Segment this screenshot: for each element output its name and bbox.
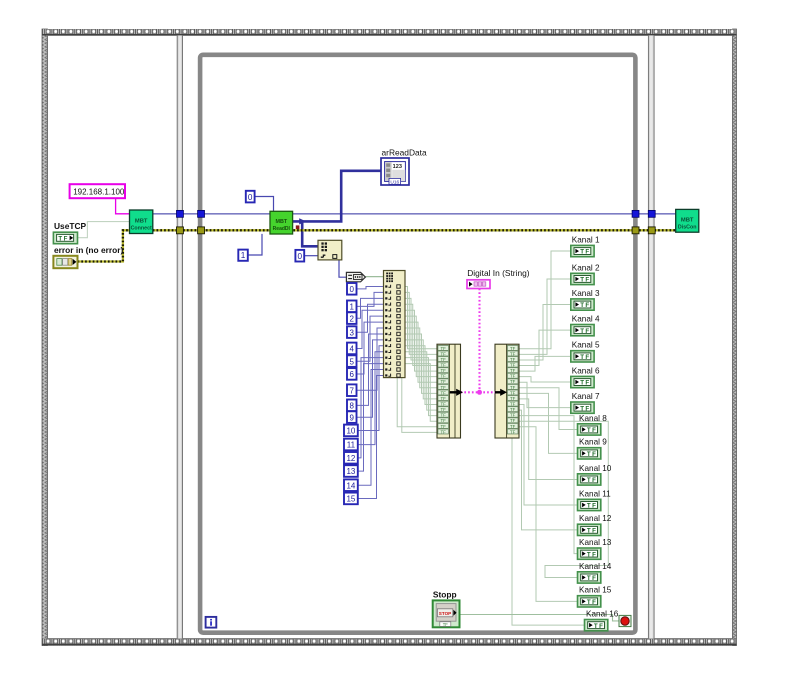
svg-text:Kanal 4: Kanal 4 bbox=[572, 315, 600, 324]
svg-text:TF: TF bbox=[510, 402, 516, 407]
svg-text:Kanal 10: Kanal 10 bbox=[579, 464, 612, 473]
svg-text:Kanal 15: Kanal 15 bbox=[579, 586, 612, 595]
svg-text:TF: TF bbox=[441, 385, 447, 390]
svg-text:TF: TF bbox=[441, 379, 447, 384]
svg-text:TF: TF bbox=[510, 413, 516, 418]
svg-text:F: F bbox=[592, 575, 596, 582]
svg-text:F: F bbox=[585, 249, 589, 256]
svg-text:Kanal 9: Kanal 9 bbox=[579, 438, 607, 447]
svg-text:TF: TF bbox=[441, 396, 447, 401]
svg-text:Kanal 7: Kanal 7 bbox=[572, 392, 600, 401]
svg-text:T: T bbox=[580, 405, 584, 412]
svg-text:Digital In (String): Digital In (String) bbox=[467, 268, 530, 278]
svg-text:8: 8 bbox=[350, 402, 355, 411]
svg-text:Kanal 5: Kanal 5 bbox=[572, 341, 600, 350]
svg-text:error in (no error): error in (no error) bbox=[54, 245, 124, 255]
svg-text:TF: TF bbox=[510, 374, 516, 379]
svg-text:Kanal 6: Kanal 6 bbox=[572, 366, 600, 375]
svg-text:TF: TF bbox=[510, 368, 516, 373]
svg-text:TF: TF bbox=[441, 390, 447, 395]
svg-text:TF: TF bbox=[510, 396, 516, 401]
svg-text:F: F bbox=[599, 623, 603, 630]
svg-text:Kanal 16: Kanal 16 bbox=[586, 610, 619, 619]
svg-text:10: 10 bbox=[346, 427, 355, 436]
svg-text:13: 13 bbox=[346, 467, 355, 476]
svg-text:T: T bbox=[580, 380, 584, 387]
svg-text:T: T bbox=[587, 551, 591, 558]
svg-text:TF: TF bbox=[441, 363, 447, 368]
svg-text:TF: TF bbox=[510, 363, 516, 368]
svg-text:T: T bbox=[587, 451, 591, 458]
svg-text:MBT: MBT bbox=[681, 218, 694, 224]
svg-text:15: 15 bbox=[346, 495, 355, 504]
svg-text:1: 1 bbox=[350, 303, 355, 312]
svg-text:F: F bbox=[592, 477, 596, 484]
svg-text:F: F bbox=[585, 354, 589, 361]
svg-text:F: F bbox=[592, 528, 596, 535]
svg-text:TF: TF bbox=[510, 385, 516, 390]
svg-text:STOP: STOP bbox=[439, 611, 451, 616]
svg-text:9: 9 bbox=[350, 413, 355, 422]
svg-text:T: T bbox=[580, 354, 584, 361]
svg-text:11: 11 bbox=[347, 441, 356, 450]
svg-text:TF: TF bbox=[441, 407, 447, 412]
svg-text:Kanal 1: Kanal 1 bbox=[572, 235, 600, 244]
svg-text:6: 6 bbox=[350, 370, 355, 379]
svg-text:Kanal 3: Kanal 3 bbox=[572, 289, 600, 298]
svg-text:TF: TF bbox=[441, 357, 447, 362]
svg-text:TF: TF bbox=[441, 402, 447, 407]
svg-text:MBT: MBT bbox=[135, 219, 148, 225]
svg-text:F: F bbox=[592, 503, 596, 510]
svg-text:T: T bbox=[587, 575, 591, 582]
svg-text:F: F bbox=[64, 236, 68, 243]
svg-text:UseTCP: UseTCP bbox=[54, 221, 87, 231]
svg-text:TF: TF bbox=[441, 374, 447, 379]
svg-text:Kanal 8: Kanal 8 bbox=[579, 414, 607, 423]
svg-text:123: 123 bbox=[393, 164, 402, 170]
svg-text:TF: TF bbox=[510, 429, 516, 434]
svg-text:Connect: Connect bbox=[131, 225, 152, 231]
svg-text:T: T bbox=[587, 528, 591, 535]
svg-text:TF: TF bbox=[510, 357, 516, 362]
svg-text:T: T bbox=[580, 277, 584, 284]
svg-text:4: 4 bbox=[350, 345, 355, 354]
svg-text:U16: U16 bbox=[390, 179, 399, 185]
svg-text:Kanal 12: Kanal 12 bbox=[579, 514, 612, 523]
svg-text:ReadDI: ReadDI bbox=[273, 226, 291, 232]
svg-text:arReadData: arReadData bbox=[382, 147, 428, 157]
svg-text:0: 0 bbox=[298, 252, 303, 261]
svg-text:7: 7 bbox=[350, 386, 355, 395]
svg-text:T: T bbox=[580, 328, 584, 335]
svg-text:TF: TF bbox=[510, 346, 516, 351]
svg-text:F: F bbox=[585, 328, 589, 335]
svg-text:0: 0 bbox=[248, 193, 253, 202]
svg-text:F: F bbox=[592, 451, 596, 458]
svg-text:T: T bbox=[587, 503, 591, 510]
svg-text:TF: TF bbox=[443, 622, 449, 627]
svg-text:TF: TF bbox=[510, 424, 516, 429]
svg-text:T: T bbox=[58, 236, 62, 243]
svg-text:F: F bbox=[592, 551, 596, 558]
svg-text:TF: TF bbox=[510, 407, 516, 412]
svg-text:Kanal 11: Kanal 11 bbox=[579, 489, 611, 498]
svg-text:T: T bbox=[580, 302, 584, 309]
svg-text:Kanal 14: Kanal 14 bbox=[579, 562, 612, 571]
svg-text:MBT: MBT bbox=[275, 219, 287, 225]
svg-text:12: 12 bbox=[346, 454, 355, 463]
svg-text:T: T bbox=[587, 427, 591, 434]
svg-text:TF: TF bbox=[510, 351, 516, 356]
svg-text:F: F bbox=[585, 380, 589, 387]
svg-text:TF: TF bbox=[441, 368, 447, 373]
svg-text:14: 14 bbox=[346, 481, 355, 490]
svg-text:F: F bbox=[592, 599, 596, 606]
svg-text:1: 1 bbox=[241, 251, 246, 260]
svg-text:F: F bbox=[585, 302, 589, 309]
svg-text:0: 0 bbox=[350, 285, 355, 294]
svg-text:TF: TF bbox=[510, 418, 516, 423]
svg-text:2: 2 bbox=[350, 314, 355, 323]
svg-text:TF: TF bbox=[441, 346, 447, 351]
svg-text:TF: TF bbox=[441, 413, 447, 418]
svg-text:TF: TF bbox=[441, 418, 447, 423]
svg-text:192.168.1.100: 192.168.1.100 bbox=[73, 187, 125, 196]
svg-text:TF: TF bbox=[510, 379, 516, 384]
svg-text:DisCon: DisCon bbox=[678, 225, 697, 231]
svg-text:Kanal 2: Kanal 2 bbox=[572, 263, 600, 272]
svg-text:3: 3 bbox=[350, 328, 355, 337]
svg-text:TF: TF bbox=[441, 351, 447, 356]
svg-text:F: F bbox=[585, 405, 589, 412]
svg-text:TF: TF bbox=[441, 429, 447, 434]
svg-text:TF: TF bbox=[510, 390, 516, 395]
svg-text:Stopp: Stopp bbox=[433, 590, 457, 600]
svg-text:TF: TF bbox=[441, 424, 447, 429]
svg-text:5: 5 bbox=[350, 357, 355, 366]
svg-text:Kanal 13: Kanal 13 bbox=[579, 538, 612, 547]
svg-text:T: T bbox=[580, 249, 584, 256]
svg-text:T: T bbox=[594, 623, 598, 630]
svg-text:T: T bbox=[587, 477, 591, 484]
svg-text:F: F bbox=[592, 427, 596, 434]
svg-text:T: T bbox=[587, 599, 591, 606]
svg-text:F: F bbox=[585, 277, 589, 284]
